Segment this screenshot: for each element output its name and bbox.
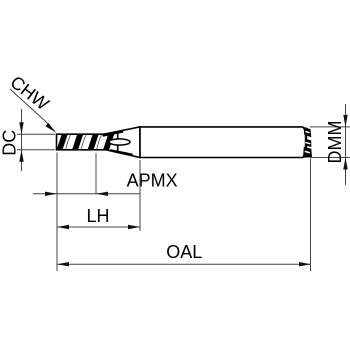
svg-text:LH: LH [87, 206, 110, 226]
leader CHW [7, 72, 57, 133]
svg-text:OAL: OAL [166, 242, 202, 262]
taper ellipse [109, 139, 130, 145]
dimension APMX [33, 153, 178, 196]
taper bottom dark band [110, 151, 133, 156]
taper vertical mark [117, 133, 119, 151]
shank outline [140, 127, 306, 158]
shank end marks [303, 127, 312, 158]
svg-text:APMX: APMX [127, 171, 178, 191]
flute hatching stripes [56, 133, 114, 150]
dimension DMM [310, 104, 350, 185]
extension line left (tip) [56, 153, 58, 272]
cutter head outline (flute + taper) [57, 127, 141, 158]
dimension DC [0, 109, 55, 171]
taper top dark band [103, 131, 124, 135]
svg-text:DC: DC [0, 130, 20, 156]
extension line shank end [310, 159, 312, 272]
dimension OAL [57, 242, 311, 267]
svg-text:DMM: DMM [325, 121, 345, 164]
dimension LH [57, 206, 140, 229]
extension line taper end [139, 160, 141, 231]
